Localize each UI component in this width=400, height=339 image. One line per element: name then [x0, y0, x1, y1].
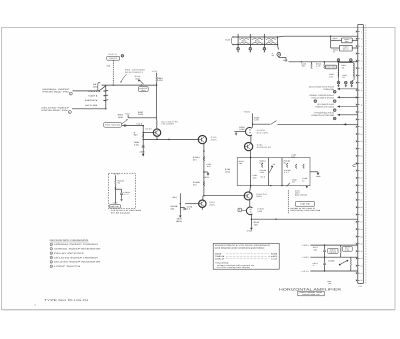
wire +12v stub — [127, 115, 129, 118]
resistor R302 — [239, 42, 249, 43]
svg-text:for a free-running trace displ: for a free-running trace display — [217, 266, 250, 269]
transistor Q164 decoupler — [245, 143, 253, 151]
ladder tap 3 — [263, 45, 265, 48]
svg-text:+GATE B: +GATE B — [88, 94, 98, 97]
decouple feed 2 — [331, 47, 340, 49]
table leader MODE — [226, 253, 269, 255]
ladder junction 4 — [277, 37, 279, 45]
transistor V153 cathode follower — [199, 200, 206, 207]
svg-text:+12.5V: +12.5V — [145, 127, 153, 130]
wire tp308 right — [279, 57, 286, 59]
resistor R306 — [266, 42, 277, 43]
svg-text:8.2K: 8.2K — [134, 143, 139, 146]
r616 stub — [323, 62, 325, 64]
svg-text:FROM PLATE V152-B: FROM PLATE V152-B — [315, 106, 335, 109]
legend bubble 3 — [50, 252, 53, 255]
boxed label +150V DEC 1 — [342, 38, 353, 43]
wire +300V rail — [310, 244, 357, 246]
svg-text:DELAY PICKOFF: DELAY PICKOFF — [54, 252, 85, 255]
ladder arrow above 1 — [237, 34, 238, 36]
connector pins — [356, 31, 360, 282]
svg-text:824: 824 — [171, 207, 175, 210]
switch blade at network bottom — [287, 183, 290, 187]
wire c-d link — [250, 135, 252, 143]
ladder arrow below 1 — [237, 51, 239, 53]
junction net bottom c — [281, 185, 282, 186]
ground detail — [120, 198, 122, 201]
wire network output — [310, 171, 318, 173]
switch S679 blade — [339, 260, 348, 265]
svg-text:100K: 100K — [239, 128, 245, 131]
svg-text:POSITIONING: POSITIONING — [105, 124, 121, 127]
svg-text:4.7-3: 4.7-3 — [123, 193, 128, 196]
r677 top — [340, 245, 342, 247]
capacitor C677 — [323, 250, 326, 251]
voltage readings table — [213, 243, 279, 269]
svg-text:-100V: -100V — [246, 229, 253, 232]
svg-text:10K: 10K — [254, 223, 259, 226]
reference bubble 2 — [69, 92, 72, 95]
svg-text:.001: .001 — [252, 176, 256, 179]
signal wire 3 — [338, 106, 358, 107]
wire +12V drop — [156, 73, 158, 77]
svg-text:TYPE 561 PLUG-IN: TYPE 561 PLUG-IN — [44, 299, 88, 302]
junction rail 324 — [324, 61, 325, 62]
decouple feed 1 — [331, 39, 342, 41]
svg-text:+300V: +300V — [302, 244, 309, 247]
boxed label +150V DEC 2 — [340, 45, 353, 51]
svg-text:471: 471 — [193, 183, 197, 186]
ladder top rail — [233, 36, 278, 38]
coil bottom links — [338, 80, 340, 82]
svg-text:7586: 7586 — [257, 210, 262, 213]
resistor R564 body — [142, 134, 144, 138]
svg-text:-100V: -100V — [112, 201, 118, 204]
boxed label R678 — [343, 246, 353, 251]
svg-text:S187 SW: S187 SW — [300, 203, 310, 206]
junction switch bottom — [105, 108, 106, 109]
wire +12.5V rail — [310, 270, 357, 272]
svg-text:6.8: 6.8 — [187, 208, 190, 211]
junction col bottom — [143, 139, 144, 140]
wire q184 to v184 — [249, 199, 251, 207]
detail cap bot — [121, 195, 123, 198]
ladder tap stub below 2 — [249, 50, 251, 51]
table leader DISPLAY — [226, 258, 269, 260]
junction dc tap — [252, 124, 253, 125]
capacitor C563 — [142, 146, 145, 147]
svg-text:NORMAL SWEEP GENERATOR: NORMAL SWEEP GENERATOR — [54, 248, 101, 251]
svg-text:TO DLY'D SWP & STARTS: TO DLY'D SWP & STARTS — [311, 97, 335, 100]
svg-text:100: 100 — [291, 156, 295, 159]
svg-text:10: 10 — [302, 179, 304, 182]
switch contact tick 1 — [106, 89, 108, 92]
svg-text:-12.5: -12.5 — [282, 59, 287, 62]
decouple bracket drop — [330, 36, 332, 48]
boxed label R185 — [238, 208, 241, 212]
svg-text:+300V: +300V — [244, 110, 251, 113]
resistor R143B body — [203, 182, 205, 186]
svg-text:AMPL: AMPL — [211, 139, 217, 142]
svg-text:4: 4 — [51, 257, 52, 259]
test point ladder 1 — [237, 48, 240, 51]
junction net top — [250, 157, 251, 158]
potentiometer gain — [269, 166, 273, 173]
coil body right — [353, 63, 355, 80]
wire dec1 to strip — [352, 39, 358, 41]
potentiometer R549 wiper — [138, 80, 143, 84]
detail branch drop — [121, 189, 123, 192]
ground coil 2 — [345, 84, 347, 87]
svg-text:DELAYED SWEEP GENERATOR: DELAYED SWEEP GENERATOR — [54, 261, 101, 264]
capacitor C560 — [125, 124, 126, 127]
table leader TIME/CM — [226, 255, 269, 257]
ladder dot top 4 — [277, 36, 278, 37]
resistor R616 — [324, 64, 326, 69]
svg-text:100K: 100K — [118, 116, 124, 119]
boxed label sweep board — [328, 248, 338, 253]
svg-text:(DEC): (DEC) — [176, 220, 182, 223]
ladder tap stub below 3 — [263, 50, 265, 51]
junction rail 338 — [337, 61, 338, 62]
junction net bottom b — [270, 185, 271, 186]
interconnect plug P11 body — [358, 25, 364, 284]
svg-text:+12.5V: +12.5V — [113, 173, 121, 176]
tick interstage — [168, 139, 170, 141]
junction base feed — [143, 132, 144, 133]
switch blade mag — [271, 121, 277, 125]
wire q114 emitter — [156, 136, 158, 139]
svg-text:DLY'D SWP: DLY'D SWP — [85, 104, 98, 107]
junction bus end — [156, 84, 157, 85]
svg-text:NORMAL SWEEP: NORMAL SWEEP — [43, 88, 71, 91]
svg-text:.033: .033 — [260, 171, 264, 174]
coil box right L608 — [353, 63, 356, 77]
resistor R143A body — [203, 157, 205, 161]
ladder bottom rail — [233, 44, 278, 46]
grommet bottom 2 — [345, 81, 348, 84]
svg-text:.1: .1 — [313, 264, 315, 267]
network outline — [237, 158, 310, 186]
grommet bottom 1 — [337, 81, 340, 84]
svg-text:AMPL: AMPL — [209, 203, 215, 206]
ground network output — [317, 172, 319, 175]
switch contact tick 3 — [106, 99, 108, 102]
svg-text:5: 5 — [51, 262, 52, 264]
test point ladder 3 — [263, 48, 266, 51]
wire output to connector — [251, 218, 357, 220]
capacitor C101B — [120, 193, 123, 194]
junction pot — [141, 84, 142, 85]
r680 top — [350, 257, 352, 260]
signal terminal 1 — [333, 91, 336, 94]
boxed label swp cal detail — [110, 205, 121, 208]
svg-text:824: 824 — [134, 134, 138, 137]
signal terminal extra 2 — [314, 100, 317, 103]
power -100V arrow — [142, 153, 144, 156]
svg-text:4.7K: 4.7K — [316, 65, 321, 68]
svg-text:-100V: -100V — [203, 176, 210, 179]
boxed label SWEEP — [107, 56, 120, 60]
svg-text:HORIZONTAL POSITION ROW: HORIZONTAL POSITION ROW — [290, 209, 320, 212]
svg-text:A ALT: A ALT — [271, 257, 278, 260]
svg-text:164: 164 — [259, 162, 263, 165]
junction at CF line — [203, 195, 204, 196]
legend underline — [50, 241, 89, 243]
ladder arrow above 2 — [250, 34, 251, 36]
legend bubble 6 — [50, 265, 53, 268]
svg-text:+12.5V: +12.5V — [301, 270, 309, 273]
mag switch linkage — [287, 190, 289, 213]
junction c677 bot — [324, 257, 325, 258]
legend bubble 4 — [50, 256, 53, 259]
ladder tap 2 — [249, 45, 251, 48]
ladder dot bottom 3 — [264, 44, 265, 45]
svg-text:DELAYED SWEEP TRIGGER: DELAYED SWEEP TRIGGER — [54, 256, 98, 259]
svg-text:+12.5: +12.5 — [260, 175, 266, 178]
r615 stub — [311, 62, 313, 64]
svg-text:AMPL: AMPL — [256, 195, 262, 198]
svg-text:+12.5: +12.5 — [136, 122, 142, 125]
tp308 stub — [278, 56, 280, 57]
wire +12V drop3 — [156, 85, 158, 118]
wire mag tap to connector — [278, 124, 358, 125]
boxed label S187 switch — [295, 202, 314, 207]
svg-text:+100V: +100V — [302, 256, 309, 259]
wire v153 stub — [202, 196, 204, 201]
ladder dot bottom 1 — [237, 44, 238, 45]
resistor R164B — [286, 163, 288, 168]
coil box left L607 — [337, 63, 340, 77]
arrow -150V — [180, 215, 182, 218]
junction decouple — [330, 36, 331, 37]
detail wire mid — [114, 185, 116, 204]
resistor R677 — [340, 247, 342, 252]
svg-text:147K: 147K — [157, 79, 163, 82]
svg-text:.001: .001 — [206, 165, 210, 168]
ladder dot bottom 2 — [250, 44, 251, 45]
resistor R301 — [239, 38, 249, 39]
wire interstage — [143, 138, 199, 140]
svg-text:SWEEP: SWEEP — [109, 57, 118, 60]
svg-text:5: 5 — [69, 111, 70, 114]
legend bubble 2 — [50, 248, 53, 251]
svg-text:160: 160 — [329, 75, 333, 78]
junction c679 bot — [324, 270, 325, 271]
resistor R166 — [303, 164, 305, 169]
wire r186 — [250, 219, 252, 227]
coil body left — [338, 63, 340, 80]
wire grid bus — [128, 117, 157, 119]
svg-text:33: 33 — [342, 76, 344, 79]
junction output line — [251, 219, 252, 220]
grommet top left — [337, 59, 340, 62]
ground coil 3 — [351, 84, 353, 87]
svg-text:101: 101 — [93, 86, 97, 89]
wire +12V drop2 — [156, 82, 158, 86]
svg-text:HORIZONTAL AMPLIFIER: HORIZONTAL AMPLIFIER — [279, 287, 342, 291]
svg-text:TRIG IN: TRIG IN — [108, 53, 117, 56]
wire trigger bus — [102, 84, 157, 86]
ground crescent — [235, 132, 237, 135]
junction rail 350 — [349, 61, 350, 62]
tube V184B output — [246, 207, 252, 215]
wire v184 down — [250, 214, 252, 219]
svg-text:100K: 100K — [138, 113, 144, 116]
transistor Q114 emitter follower — [153, 129, 160, 136]
connector J30 — [121, 55, 124, 58]
svg-text:86: 86 — [292, 181, 294, 184]
detail wire top — [114, 175, 116, 180]
svg-text:82: 82 — [284, 162, 286, 165]
svg-text:.001: .001 — [313, 248, 317, 251]
svg-text:SAWTOOTH: SAWTOOTH — [85, 99, 98, 102]
coil bottom link2 — [352, 80, 354, 82]
ladder arrow below 3 — [264, 51, 266, 53]
wire +100V rail — [310, 256, 357, 258]
wire tp308 drop — [285, 58, 287, 62]
svg-text:FROM COLLECTOR R584: FROM COLLECTOR R584 — [311, 114, 334, 117]
svg-text:J30: J30 — [106, 65, 110, 68]
svg-text:FROM R587 PIN: FROM R587 PIN — [42, 109, 69, 112]
spare pin hook — [353, 164, 358, 167]
signal terminal 3 — [333, 109, 336, 112]
svg-text:-100V: -100V — [139, 151, 146, 154]
test point tp308 — [277, 53, 281, 57]
ladder arrow above 3 — [264, 34, 265, 36]
switch contact tick 2 — [106, 94, 108, 97]
+300V rail top — [284, 35, 358, 37]
brace switch SW101 — [96, 82, 100, 91]
wire switch column — [105, 85, 107, 109]
wire normal sweep input — [73, 86, 106, 91]
wire +300v drop — [252, 113, 254, 127]
svg-text:ADJUSTMENTS: ADJUSTMENTS — [125, 71, 143, 74]
legend bubble 1 — [50, 243, 53, 246]
resistor R562 — [156, 121, 158, 125]
svg-text:+GATE A: +GATE A — [88, 90, 98, 93]
grommet bottom 3 — [350, 81, 353, 84]
resistor R305 — [266, 38, 277, 39]
junction net bottom — [250, 185, 251, 186]
signal wire 4 — [338, 114, 358, 115]
boxed label SWP CAL — [138, 87, 148, 92]
arrow -100V output — [251, 227, 253, 230]
svg-text:LOGIC SWITCH: LOGIC SWITCH — [54, 265, 81, 268]
wire delayed sweep input — [72, 108, 106, 110]
network divider 2 — [281, 158, 283, 186]
svg-text:2: 2 — [70, 92, 71, 95]
wire c679 bot — [324, 265, 326, 271]
wire r562 top — [156, 118, 158, 121]
junction rail 301 — [301, 61, 302, 62]
ground coil 1 — [337, 84, 339, 87]
svg-text:P11: P11 — [359, 285, 363, 288]
svg-text:DELAYED SWEEP: DELAYED SWEEP — [42, 107, 71, 110]
ladder junction 3 — [263, 37, 265, 45]
svg-text:1162: 1162 — [225, 170, 230, 173]
ladder dot top 3 — [264, 36, 265, 37]
wire base feed — [143, 132, 153, 134]
wire c677 bot — [324, 252, 326, 257]
ladder tap right — [277, 45, 280, 50]
resistor R101B — [115, 180, 117, 185]
resistor R554 — [156, 77, 158, 82]
junction at J30 drop — [113, 84, 114, 85]
arrow -100V cathode — [207, 172, 209, 175]
wafer contact 2 — [103, 95, 105, 97]
signal terminal 4 — [333, 117, 336, 120]
boxed label +150V dec 3 — [326, 65, 337, 69]
ladder out merge — [278, 35, 285, 38]
wafer contact 3 — [103, 99, 105, 101]
svg-text:82: 82 — [272, 54, 274, 57]
svg-text:3.3-7: 3.3-7 — [284, 171, 289, 174]
svg-text:FROM R547 PIN: FROM R547 PIN — [43, 91, 70, 94]
ladder dot top 2 — [250, 36, 251, 37]
detail branch — [115, 188, 121, 190]
tick detail — [115, 188, 117, 190]
wire base column — [142, 126, 144, 157]
junction q114 e — [156, 139, 157, 140]
svg-text:2: 2 — [35, 304, 36, 307]
svg-text:TRIG: TRIG — [141, 89, 146, 92]
junction cathode net — [203, 171, 204, 172]
svg-text:.001: .001 — [301, 65, 305, 68]
svg-text:SEE SW DIAGRAM: SEE SW DIAGRAM — [111, 211, 130, 214]
ladder arrow below 2 — [250, 51, 252, 53]
capacitor C156 — [183, 208, 186, 209]
arrow from POSITIONING to bus — [122, 119, 128, 124]
wire crescent left — [234, 131, 245, 133]
svg-text:DISPLAY: DISPLAY — [215, 257, 225, 260]
wire c677 top — [324, 245, 326, 250]
grommet top right — [350, 59, 353, 62]
wire q164 inside — [250, 158, 252, 186]
resistor R164A — [261, 163, 263, 168]
wire network to Q184 — [250, 186, 251, 193]
svg-text:+12V: +12V — [225, 39, 231, 42]
svg-text:164: 164 — [239, 162, 243, 165]
ladder dot bottom 4 — [277, 44, 278, 45]
svg-text:4.7K: 4.7K — [254, 119, 259, 122]
tube E bottom stub — [201, 207, 203, 209]
ladder tap 1 — [237, 45, 239, 48]
svg-text:2: 2 — [51, 248, 52, 250]
svg-text:MAG REGIS: MAG REGIS — [295, 194, 308, 197]
capacitor C679 — [323, 263, 326, 264]
ladder junction 1 — [237, 37, 239, 45]
svg-text:6: 6 — [51, 266, 52, 268]
ladder junction 2 — [249, 37, 251, 45]
wire r185 hook — [241, 209, 246, 212]
wire c679 top — [324, 257, 326, 262]
wire grid branch col — [179, 193, 181, 214]
tick cathode — [203, 150, 205, 152]
network divider 1 — [268, 158, 270, 186]
title stamp box — [298, 291, 324, 296]
diode junction dark — [306, 186, 308, 188]
mating connector dashed — [365, 25, 367, 284]
resistor R303 — [252, 38, 264, 39]
svg-text:FROM R594: FROM R594 — [323, 88, 334, 91]
svg-text:DECOUPLER: DECOUPLER — [257, 146, 272, 149]
svg-text:NORMAL SWEEP TRIGGER: NORMAL SWEEP TRIGGER — [54, 243, 98, 246]
svg-text:REFERENCE DRAWINGS: REFERENCE DRAWINGS — [50, 239, 89, 242]
resistor R680 — [350, 260, 352, 265]
wafer contact 1 — [103, 90, 105, 92]
ladder dot top 1 — [237, 36, 238, 37]
